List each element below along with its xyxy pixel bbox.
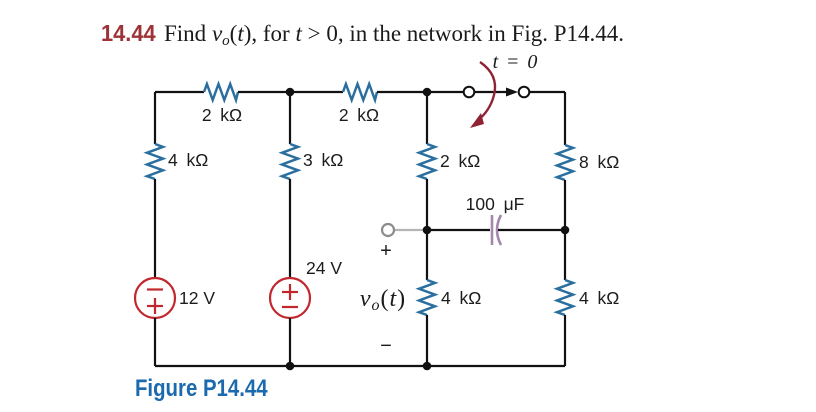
wire capacitor row right: [498, 229, 565, 231]
wire branch2 middle: [289, 179, 291, 278]
wire left branch top stub: [154, 92, 156, 144]
switch action arrow (red arc): [477, 62, 495, 121]
svg-text:2 kΩ: 2 kΩ: [339, 105, 379, 125]
wire branch3 middle: [426, 179, 428, 280]
wire switch to top right corner: [530, 91, 565, 93]
svg-text:−: −: [380, 335, 392, 357]
svg-text:12 V: 12 V: [179, 288, 215, 308]
svg-text:4 kΩ: 4 kΩ: [579, 288, 619, 308]
open terminal: [382, 224, 394, 236]
node cap-right: [561, 226, 570, 235]
wire branch3 top stub: [426, 92, 428, 144]
node bottom-3: [423, 362, 432, 371]
svg-text:3 kΩ: 3 kΩ: [303, 150, 343, 170]
wire top left segment: [155, 91, 204, 93]
wire branch2 top stub: [289, 92, 291, 144]
svg-text:14.44: 14.44: [101, 20, 156, 46]
svg-text:4 kΩ: 4 kΩ: [441, 288, 481, 308]
resistor 2 kOhm top-middle: [343, 84, 377, 100]
capacitor 100 uF: [492, 215, 501, 245]
wire bottom: [155, 365, 565, 367]
resistor 2 kOhm top-left: [204, 84, 238, 100]
svg-text:4 kΩ: 4 kΩ: [168, 150, 208, 170]
resistor 4 kOhm branch3: [419, 280, 435, 315]
node top-2: [286, 88, 295, 97]
wire branch3 bottom: [426, 315, 428, 366]
svg-text:100 μF: 100 μF: [466, 194, 525, 214]
wire capacitor row left: [427, 229, 490, 231]
svg-text:Figure P14.44: Figure P14.44: [135, 374, 268, 401]
switch arrowhead: [506, 88, 518, 97]
source 12 V: [135, 278, 175, 318]
svg-text:t = 0: t = 0: [493, 51, 540, 73]
resistor 3 kOhm: [282, 144, 298, 179]
svg-text:Find vo(t), for t > 0, in the: Find vo(t), for t > 0, in the network in…: [164, 21, 624, 49]
switch terminal right: [519, 87, 530, 98]
source 24 V: [270, 278, 310, 318]
wire right branch top stub: [564, 92, 566, 145]
wire branch2 bottom: [289, 318, 291, 366]
resistor 4 kOhm left: [147, 144, 163, 179]
svg-text:+: +: [380, 240, 392, 262]
svg-text:2 kΩ: 2 kΩ: [202, 105, 242, 125]
svg-text:8 kΩ: 8 kΩ: [579, 152, 619, 172]
resistor 4 kOhm right: [557, 280, 573, 315]
wire switch blade: [474, 91, 508, 93]
switch terminal left: [464, 87, 475, 98]
node top-3: [423, 88, 432, 97]
wire right branch bottom: [564, 315, 566, 366]
wire top to switch: [377, 91, 464, 93]
wire top between R1 and node: [238, 91, 343, 93]
svg-text:24 V: 24 V: [306, 258, 342, 278]
svg-text:vo(t): vo(t): [360, 286, 406, 314]
node bottom-2: [286, 362, 295, 371]
resistor 8 kOhm: [557, 145, 573, 180]
wire right branch middle: [564, 180, 566, 280]
svg-text:2 kΩ: 2 kΩ: [440, 151, 480, 171]
resistor 2 kOhm branch3: [419, 144, 435, 179]
title: [101, 20, 624, 49]
wire left branch middle: [154, 179, 156, 278]
wire output terminal (gray): [394, 229, 425, 231]
node cap-left: [423, 226, 432, 235]
wire left branch bottom: [154, 318, 156, 366]
